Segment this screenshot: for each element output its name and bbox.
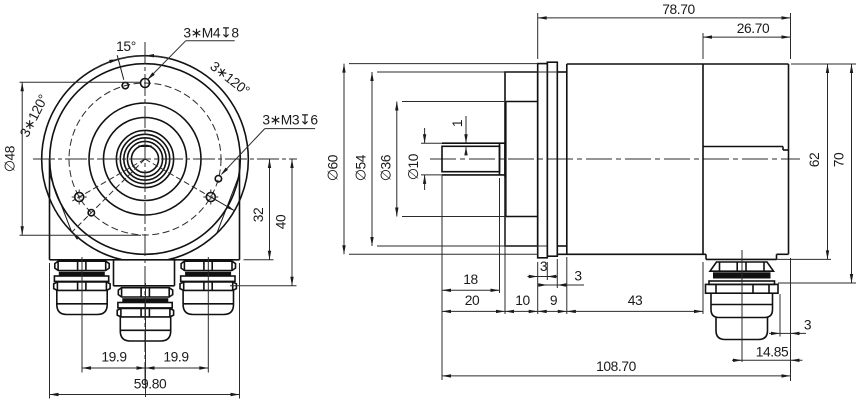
cable gland right [181,261,235,270]
svg-text:40: 40 [274,214,289,229]
svg-text:∅10: ∅10 [406,153,421,180]
svg-text:∅54: ∅54 [354,154,369,181]
gland centerline right [207,257,209,373]
radial centerline 330deg [145,159,218,201]
svg-text:3: 3 [804,318,812,333]
body/cap boundary [702,64,704,254]
dim 26.70 [702,33,704,59]
side gland centerline [741,250,743,362]
phi54 disc [505,72,538,246]
svg-text:15°: 15° [116,39,136,54]
15deg extension radial 105deg [117,55,124,80]
dim 70 [778,282,856,284]
dim phi36 [402,101,506,103]
dim 3 first plate [546,262,548,280]
dim 32 (front right) [244,259,274,261]
svg-text:14.85: 14.85 [756,345,789,360]
dim 59.80 [49,263,51,399]
M4 holes on bolt circle [141,79,150,88]
middle gland dome behind (lower) [716,318,768,340]
svg-text:59.80: 59.80 [134,377,167,392]
phi36 boss edges [506,101,538,103]
shaft phi10 collar [442,142,505,144]
flange plate 59.80 wide [49,159,51,260]
radial 330 solid extension with arrow on outer circle [211,197,235,211]
front horizontal centerline [33,158,297,160]
dim phi60 [349,63,538,65]
side gland bracket [705,254,707,259]
mounting plate 3mm first [538,64,548,258]
svg-text:10: 10 [515,293,530,308]
svg-text:62: 62 [807,153,822,168]
dim 78.70 [537,13,539,59]
svg-text:18: 18 [463,272,478,287]
svg-text:20: 20 [465,293,480,308]
shaft flat chord [138,145,151,147]
dim 43 [702,262,704,314]
dim 3 rear (gland to cap) [790,258,792,381]
svg-text:3∗M4↧8: 3∗M4↧8 [183,26,239,41]
svg-text:32: 32 [251,208,266,223]
dim 1 (shaft step) [465,116,467,143]
svg-text:70: 70 [832,152,847,167]
svg-text:1: 1 [450,120,465,127]
outer clamp ring circle [42,56,249,260]
side view group [430,62,800,362]
dim 108.70 [442,375,791,377]
dim 40 (front right) [230,285,297,287]
gland centerline left [81,257,83,373]
radial centerline 225deg with leader arrow [72,159,145,232]
inner circle phi36 [89,103,201,215]
dim 20 [441,175,443,380]
M3 holes on bolt circle [122,82,128,88]
svg-text:3: 3 [574,269,582,284]
svg-text:26.70: 26.70 [737,21,770,36]
shaft reduced section [442,146,500,171]
svg-text:9: 9 [550,293,558,308]
dim 18 [442,289,500,291]
dim 62 [777,258,832,260]
body front step 3mm [557,71,567,73]
dim 14.85 [732,359,803,361]
plate corner diagonal right [217,175,239,232]
bolt circle phi48 dashed [69,83,221,235]
svg-text:19.9: 19.9 [163,350,189,365]
mounting plate 3mm second [547,62,557,256]
side horizontal centerline [430,158,800,160]
svg-text:43: 43 [628,293,643,308]
plate corner diagonal left [50,175,72,232]
dim 19.9 left [82,367,208,369]
dim 10 [504,178,506,314]
radial centerline 210deg [72,159,145,201]
dim phi10 [421,142,442,144]
side cable gland [710,262,774,271]
side gland dome [711,293,773,317]
dim phi54 [377,71,557,73]
svg-text:∅60: ∅60 [326,154,341,181]
svg-text:3: 3 [540,259,548,274]
dim 15deg arc [95,56,170,69]
inner circle mid [104,118,187,201]
dim phi48 (left) [20,81,142,83]
svg-text:78.70: 78.70 [662,2,695,17]
cable gland middle (lower) [118,288,172,297]
main body phi60 [567,63,789,65]
cable gland left [55,261,109,270]
dim 9 [566,257,568,314]
rear cap right face [788,64,790,254]
front view: encoder front outline group [33,42,297,397]
front vertical centerline [144,42,146,385]
svg-text:3∗M3↧6: 3∗M3↧6 [262,112,318,127]
svg-text:∅36: ∅36 [378,154,393,181]
dim 3 second plate [556,259,558,288]
svg-text:∅48: ∅48 [3,145,18,172]
body circle (phi60) [50,64,241,255]
cap internal line [703,146,783,148]
gland centerline middle [145,283,147,397]
shaft rings [116,130,173,187]
svg-text:108.70: 108.70 [596,359,637,374]
svg-text:19.9: 19.9 [101,350,127,365]
flange middle tab [113,260,115,286]
